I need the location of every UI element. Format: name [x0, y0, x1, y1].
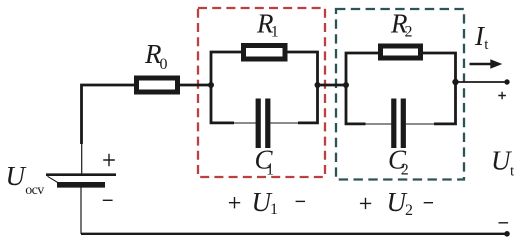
plus sign of U2 [360, 198, 371, 209]
node A junction dot [208, 82, 214, 88]
plus sign of U1 [229, 197, 240, 208]
svg-text:1: 1 [266, 162, 274, 179]
wire: battery positive lead up and right to R0 [82, 85, 138, 144]
resistor R1 body [244, 46, 286, 60]
svg-text:1: 1 [271, 24, 279, 41]
battery minus sign [103, 199, 113, 201]
node D junction dot (output tap) [452, 79, 458, 85]
battery top plate (+) [46, 173, 116, 176]
wire: bottom return rail [81, 233, 507, 235]
wire: branch2 left L [346, 53, 378, 124]
wire: C1 thin leads [233, 122, 299, 124]
svg-text:2: 2 [405, 24, 413, 41]
output plus sign [498, 92, 506, 100]
current arrow I_t [470, 63, 492, 66]
wire: R0 to node A [178, 84, 211, 87]
wire: branch1 left L (node A up to R1 rail, down to C1 rail) [211, 52, 242, 123]
battery plus sign [103, 154, 115, 167]
positive terminal dot [504, 79, 509, 84]
wire: thin lead into battery top plate [81, 143, 83, 174]
output minus sign [499, 222, 509, 224]
wire: node B to node C between boxes [318, 84, 347, 87]
RC branch 1 dashed box (red) [198, 8, 325, 177]
node B junction dot (branch1 right) [315, 82, 321, 88]
negative terminal dot [504, 231, 510, 237]
node C junction dot (branch2 left) [343, 82, 349, 88]
capacitor C2 plates [391, 99, 396, 149]
svg-text:U: U [491, 146, 512, 176]
svg-text:U: U [6, 161, 27, 191]
svg-text:0: 0 [160, 56, 168, 73]
battery plate diagonal tick [48, 176, 59, 183]
wire: output to positive terminal [456, 81, 508, 83]
resistor R2 body [381, 46, 421, 58]
wire: branch1 right L [287, 52, 318, 123]
minus sign of U2 [424, 202, 433, 204]
wire: battery negative lead down [80, 187, 82, 234]
battery bottom plate (-) [57, 182, 105, 188]
svg-text:ocv: ocv [25, 183, 44, 198]
svg-text:1: 1 [270, 201, 278, 218]
wire: C2 thin leads [365, 123, 436, 125]
svg-text:2: 2 [405, 202, 413, 219]
minus sign of U1 [296, 200, 305, 202]
wire: branch2 right L [423, 53, 456, 124]
RC branch 2 dashed box (teal) [336, 9, 464, 180]
capacitor C1 plates [256, 99, 261, 149]
svg-text:2: 2 [401, 162, 409, 179]
resistor R0 body [137, 78, 178, 92]
